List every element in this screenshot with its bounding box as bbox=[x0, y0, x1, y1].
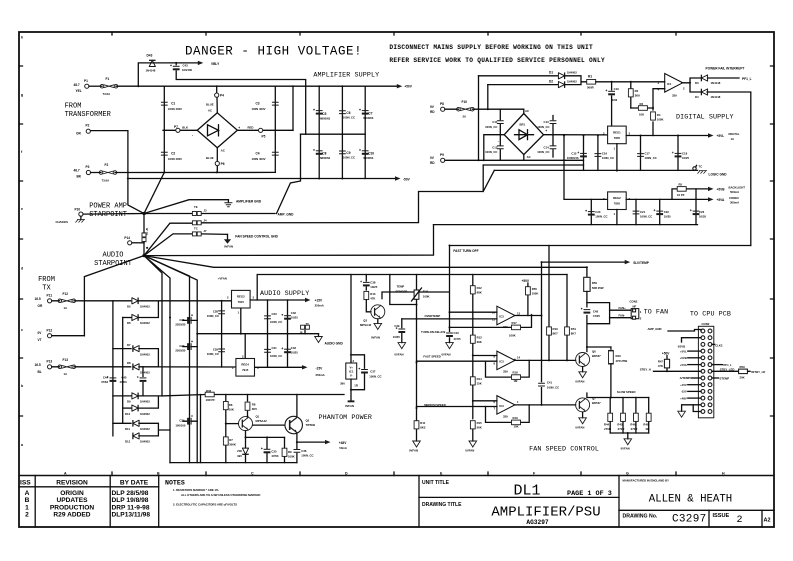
svg-text:0VFAN: 0VFAN bbox=[575, 379, 584, 383]
wire bridge out to REG1 bbox=[544, 134, 608, 136]
bridge rectifier BR diamond bbox=[197, 113, 237, 148]
svg-text:MANUFACTURED IN ENGLAND BY: MANUFACTURED IN ENGLAND BY bbox=[623, 479, 670, 483]
op-amp IC3a bbox=[497, 306, 515, 325]
capacitor C48 bbox=[581, 308, 591, 314]
svg-text:AG3297: AG3297 bbox=[526, 519, 549, 526]
svg-text:AC: AC bbox=[525, 109, 529, 113]
svg-text:R59: R59 bbox=[740, 365, 746, 369]
svg-text:CON2: CON2 bbox=[702, 322, 710, 326]
svg-text:PF1_L: PF1_L bbox=[742, 77, 752, 81]
diode D4 bbox=[701, 89, 707, 96]
svg-text:R50: R50 bbox=[592, 281, 598, 285]
svg-text:R47: R47 bbox=[658, 359, 664, 363]
wire VBLY bbox=[138, 63, 200, 86]
svg-text:Q6: Q6 bbox=[592, 350, 596, 354]
wire D9 D10 join bbox=[139, 396, 162, 408]
svg-text:FAN SPEED CONTROL: FAN SPEED CONTROL bbox=[529, 445, 599, 453]
svg-text:SENSOR: SENSOR bbox=[396, 289, 408, 293]
svg-text:POWER AMP: POWER AMP bbox=[89, 203, 127, 211]
svg-text:OR: OR bbox=[76, 132, 81, 136]
transistor Q7 bbox=[576, 398, 590, 412]
svg-text:100K: 100K bbox=[288, 454, 295, 458]
svg-text:P9: P9 bbox=[440, 153, 444, 157]
svg-text:D3: D3 bbox=[695, 81, 699, 85]
net PF1_L right bbox=[712, 364, 723, 366]
svg-text:T3.6A: T3.6A bbox=[103, 92, 111, 96]
svg-text:100N_CC: 100N_CC bbox=[343, 155, 355, 159]
capacitor C11 bbox=[499, 109, 501, 135]
resistor R7 bbox=[223, 437, 228, 445]
svg-text:48.7: 48.7 bbox=[74, 169, 80, 173]
svg-text:IC3: IC3 bbox=[499, 359, 504, 363]
wire REG2 out +5VA bbox=[626, 198, 710, 200]
svg-text:-: - bbox=[498, 139, 499, 143]
svg-text:100N_CC: 100N_CC bbox=[485, 150, 497, 154]
bridge internal diode bbox=[208, 125, 219, 136]
svg-text:C2: C2 bbox=[171, 152, 175, 156]
svg-text:R18: R18 bbox=[513, 371, 519, 375]
capacitor C33 bbox=[287, 334, 289, 368]
svg-text:1A: 1A bbox=[64, 372, 68, 376]
svg-text:Q2: Q2 bbox=[306, 419, 310, 423]
capacitor C12 bbox=[499, 135, 501, 161]
connector P1 bbox=[85, 84, 89, 88]
svg-text:16.5: 16.5 bbox=[35, 363, 41, 367]
svg-text:100/100: 100/100 bbox=[175, 423, 186, 427]
svg-text:100N_CC: 100N_CC bbox=[207, 314, 219, 318]
capacitor C38 bbox=[365, 275, 367, 291]
wire IC3a out bbox=[515, 315, 542, 317]
wire fast turn off vertical bbox=[382, 246, 450, 332]
svg-text:11: 11 bbox=[492, 318, 495, 322]
svg-text:7805: 7805 bbox=[614, 136, 621, 140]
svg-text:AC: AC bbox=[527, 155, 531, 159]
capacitor C36 bbox=[296, 442, 298, 463]
right border ticks bbox=[771, 66, 775, 416]
svg-text:1N4002: 1N4002 bbox=[140, 371, 150, 375]
wire -50V rail bbox=[128, 178, 398, 180]
connector P11 bbox=[48, 299, 52, 303]
svg-text:1N4148: 1N4148 bbox=[146, 69, 156, 73]
svg-text:100N_CC: 100N_CC bbox=[547, 385, 559, 389]
connector P4 bbox=[216, 86, 219, 113]
diode D9 bbox=[113, 395, 131, 397]
svg-text:AC: AC bbox=[208, 108, 212, 112]
wire 0V down to amp gnd bbox=[277, 134, 301, 213]
capacitor C28 bbox=[221, 301, 223, 367]
svg-text:1N4002: 1N4002 bbox=[567, 71, 577, 75]
net STEMP bbox=[712, 377, 719, 379]
svg-text:ALLEN & HEATH: ALLEN & HEATH bbox=[649, 494, 732, 506]
svg-text:1N4002: 1N4002 bbox=[140, 412, 150, 416]
svg-text:C26: C26 bbox=[179, 318, 185, 322]
diode D12 bbox=[133, 433, 139, 440]
capacitor C43 bbox=[176, 63, 306, 134]
wire D2 feed vertical bbox=[487, 85, 489, 110]
svg-text:C27: C27 bbox=[179, 344, 185, 348]
svg-text:OVERTEMP: OVERTEMP bbox=[425, 314, 441, 318]
svg-text:VT: VT bbox=[38, 338, 42, 342]
connector P9 bbox=[441, 158, 445, 162]
capacitor C29 bbox=[218, 349, 225, 352]
capacitor C5 bbox=[313, 109, 323, 115]
svg-text:R4: R4 bbox=[657, 113, 661, 117]
svg-text:FAN-: FAN- bbox=[619, 314, 626, 318]
svg-text:100N_CC: 100N_CC bbox=[270, 320, 282, 324]
svg-text:100N 400V: 100N 400V bbox=[252, 107, 266, 111]
capacitor C4 bbox=[272, 152, 279, 155]
wire D11 D12 join bbox=[139, 423, 170, 436]
capacitor C21 bbox=[635, 199, 637, 224]
svg-text:P2: P2 bbox=[86, 124, 90, 128]
svg-text:R19: R19 bbox=[513, 416, 519, 420]
svg-text:7915: 7915 bbox=[242, 368, 249, 372]
svg-text:R29 ADDED: R29 ADDED bbox=[53, 512, 90, 519]
svg-text:0VFAN: 0VFAN bbox=[465, 449, 474, 453]
svg-text:e: e bbox=[21, 207, 23, 211]
op-amp IC3b bbox=[497, 351, 515, 370]
svg-text:FAN+: FAN+ bbox=[619, 306, 627, 310]
svg-text:DL1: DL1 bbox=[513, 483, 540, 500]
svg-text:R9: R9 bbox=[288, 450, 292, 454]
svg-text:C7: C7 bbox=[368, 111, 372, 115]
capacitor bank vertical 1 bbox=[318, 86, 320, 178]
svg-text:J3: J3 bbox=[204, 209, 208, 213]
wire 0V mid rail bbox=[301, 133, 366, 135]
svg-text:47K: 47K bbox=[658, 364, 663, 368]
svg-text:2200/35: 2200/35 bbox=[175, 349, 186, 353]
svg-text:+5VA: +5VA bbox=[717, 198, 726, 202]
svg-text:C39: C39 bbox=[394, 324, 400, 328]
ground slow network bbox=[624, 439, 632, 445]
wire power to audio starpoint bbox=[143, 214, 145, 256]
svg-text:D9: D9 bbox=[127, 400, 131, 404]
wire pin row 13 hook bbox=[693, 405, 701, 412]
wire bridge box right vertical bbox=[274, 86, 276, 172]
svg-text:BD537: BD537 bbox=[592, 401, 601, 405]
svg-text:h: h bbox=[21, 36, 23, 40]
ground Q6 emitter bbox=[582, 367, 584, 372]
svg-text:P14: P14 bbox=[124, 236, 130, 240]
svg-text:339: 339 bbox=[672, 93, 677, 97]
svg-text:47/25: 47/25 bbox=[454, 337, 461, 341]
svg-text:1R: 1R bbox=[354, 384, 358, 388]
svg-text:2: 2 bbox=[737, 515, 743, 526]
svg-text:Q3: Q3 bbox=[363, 318, 367, 322]
svg-text:C4: C4 bbox=[256, 152, 260, 156]
svg-text:+15V: +15V bbox=[680, 383, 687, 387]
svg-text:C9: C9 bbox=[346, 151, 350, 155]
svg-text:R46: R46 bbox=[630, 423, 636, 427]
capacitor C17 bbox=[640, 136, 642, 171]
svg-text:FAST SPEED: FAST SPEED bbox=[423, 355, 440, 359]
connector P8 bbox=[441, 107, 445, 111]
svg-text:R44: R44 bbox=[604, 423, 610, 427]
svg-text:10/25: 10/25 bbox=[291, 351, 298, 355]
resistor R46 bbox=[635, 398, 637, 434]
svg-text:100N_CC: 100N_CC bbox=[537, 150, 549, 154]
capacitor C31 bbox=[267, 334, 269, 368]
wire +50V rail bbox=[116, 85, 399, 87]
svg-text:47/63: 47/63 bbox=[120, 380, 127, 384]
resistor R6 bbox=[225, 395, 227, 463]
wire bridge AC top bbox=[500, 109, 524, 113]
svg-text:YEL: YEL bbox=[76, 89, 82, 93]
svg-text:+48V: +48V bbox=[339, 441, 347, 445]
jumper J7 bbox=[144, 234, 228, 256]
fuse F2 bbox=[99, 171, 117, 175]
svg-text:D12: D12 bbox=[125, 440, 131, 444]
svg-text:100N_CC: 100N_CC bbox=[270, 354, 282, 358]
bridge BR1 diamond bbox=[504, 114, 543, 155]
svg-text:REFER SERVICE WORK TO QUALIFIE: REFER SERVICE WORK TO QUALIFIED SERVICE … bbox=[389, 57, 605, 64]
svg-text:J6: J6 bbox=[299, 331, 303, 335]
capacitor C26 bbox=[183, 319, 197, 321]
svg-text:8K7: 8K7 bbox=[571, 332, 577, 336]
svg-text:P3: P3 bbox=[86, 165, 90, 169]
svg-text:STEMP: STEMP bbox=[720, 377, 730, 381]
svg-text:DRAWING TITLE: DRAWING TITLE bbox=[422, 502, 462, 508]
fuse F13 bbox=[58, 365, 76, 369]
svg-text:10/25: 10/25 bbox=[370, 285, 377, 289]
svg-text:STBY_H: STBY_H bbox=[640, 367, 651, 371]
svg-text:BLUE: BLUE bbox=[206, 103, 214, 107]
svg-text:P12: P12 bbox=[47, 328, 53, 332]
svg-text:D4: D4 bbox=[695, 95, 699, 99]
wire P1 to F1 bbox=[89, 85, 102, 87]
svg-text:Z30: Z30 bbox=[237, 449, 242, 453]
svg-text:47/25: 47/25 bbox=[593, 314, 600, 318]
revision table verticals bbox=[35, 476, 159, 528]
svg-text:POWER FAIL INTERRUPT: POWER FAIL INTERRUPT bbox=[706, 67, 745, 71]
svg-text:16.5: 16.5 bbox=[35, 297, 41, 301]
svg-text:390: 390 bbox=[340, 382, 345, 386]
wire REG4 out -15V bbox=[255, 366, 303, 368]
arrow -50V bbox=[395, 176, 401, 180]
capacitor C18 bbox=[677, 136, 679, 171]
svg-text:10K: 10K bbox=[514, 425, 519, 429]
svg-text:1N4148: 1N4148 bbox=[711, 95, 721, 99]
wire Q1 base bbox=[226, 423, 239, 425]
svg-text:-: - bbox=[192, 133, 193, 137]
svg-text:RED: RED bbox=[248, 125, 254, 129]
svg-text:REG1: REG1 bbox=[613, 130, 621, 134]
wire P14 to starpoint bbox=[132, 242, 144, 244]
diode D3 bbox=[701, 75, 707, 82]
wire pin10 row bbox=[450, 311, 497, 313]
svg-text:BLUE: BLUE bbox=[206, 156, 214, 160]
connector P7 bbox=[163, 129, 197, 131]
wire medium speed row bbox=[417, 406, 497, 408]
diode D1 bbox=[479, 75, 559, 77]
wire slow network bottom bbox=[610, 433, 649, 439]
svg-text:C34: C34 bbox=[179, 419, 185, 423]
svg-text:AC: AC bbox=[221, 148, 225, 152]
svg-text:IC3: IC3 bbox=[499, 404, 504, 408]
svg-text:6800/63: 6800/63 bbox=[363, 156, 374, 160]
resistor R48 bbox=[648, 398, 650, 434]
wire slv/temp run bbox=[543, 261, 627, 263]
wire R1 to IC1 bbox=[596, 81, 665, 83]
node audio starpoint bbox=[146, 247, 148, 249]
connector P6 bbox=[216, 148, 218, 173]
svg-text:C41: C41 bbox=[547, 381, 553, 385]
svg-text:C30: C30 bbox=[272, 312, 278, 316]
svg-text:1A: 1A bbox=[731, 137, 735, 141]
svg-text:LOGIC GND: LOGIC GND bbox=[709, 172, 728, 176]
svg-text:SLV/TEMP: SLV/TEMP bbox=[633, 261, 650, 265]
svg-text:100K: 100K bbox=[509, 333, 516, 337]
svg-text:6800/63: 6800/63 bbox=[320, 156, 331, 160]
capacitor C16 bbox=[597, 136, 599, 171]
connector P12 bbox=[48, 334, 52, 338]
svg-text:C21: C21 bbox=[640, 210, 646, 214]
svg-text:339: 339 bbox=[503, 414, 508, 418]
svg-text:1N4002: 1N4002 bbox=[140, 321, 150, 325]
wire 0VFAN rail to R50 bbox=[586, 267, 588, 277]
svg-text:TO CPU PCB: TO CPU PCB bbox=[690, 310, 731, 318]
diode D6 bbox=[123, 317, 131, 319]
resistor R13 bbox=[472, 343, 474, 377]
capacitor C35 bbox=[266, 437, 268, 462]
connector CON2 pins bbox=[701, 329, 712, 413]
capacitor C34 bbox=[183, 420, 197, 422]
svg-text:Q1: Q1 bbox=[256, 414, 260, 418]
svg-text:DIGITAL: DIGITAL bbox=[729, 132, 740, 136]
svg-text:F10: F10 bbox=[462, 100, 468, 104]
capacitor C39 bbox=[401, 319, 403, 343]
svg-text:DIGITAL SUPPLY: DIGITAL SUPPLY bbox=[676, 114, 734, 122]
svg-text:10R PF: 10R PF bbox=[206, 398, 216, 402]
wire P10 to starpoint bbox=[83, 213, 144, 216]
svg-text:C33: C33 bbox=[291, 346, 297, 350]
wire audio starpoint long run to fast-turn-off bbox=[144, 225, 434, 256]
svg-text:T3.6A: T3.6A bbox=[102, 178, 110, 182]
capacitor C41 bbox=[538, 383, 545, 386]
wire D3 to PF1_L bbox=[708, 77, 740, 79]
svg-text:VBLY: VBLY bbox=[211, 62, 220, 66]
svg-text:NOTES: NOTES bbox=[165, 480, 185, 487]
wire fan- to connector bbox=[610, 317, 632, 319]
svg-text:TC: TC bbox=[306, 322, 310, 326]
svg-text:SLOW SPEED: SLOW SPEED bbox=[617, 390, 636, 394]
svg-text:3STBY_LD: 3STBY_LD bbox=[751, 370, 765, 374]
svg-text:C10: C10 bbox=[368, 151, 374, 155]
wire D1 D2 join bbox=[566, 76, 588, 85]
svg-text:13: 13 bbox=[517, 311, 521, 315]
transistor Q1 bbox=[239, 417, 253, 431]
capacitor C7 bbox=[359, 109, 369, 115]
unit/drawing divider bbox=[419, 496, 619, 498]
ground AUDIO GND bbox=[318, 334, 320, 337]
svg-text:10 PF: 10 PF bbox=[677, 193, 685, 197]
resistor R11 bbox=[416, 428, 418, 441]
capacitor C8 bbox=[313, 149, 323, 155]
svg-text:100/100: 100/100 bbox=[182, 68, 193, 72]
svg-text:R14: R14 bbox=[477, 377, 483, 381]
svg-text:47K: 47K bbox=[370, 297, 375, 301]
regulator REG4 bbox=[236, 359, 255, 377]
svg-text:+5VL: +5VL bbox=[717, 134, 725, 138]
svg-text:R36: R36 bbox=[206, 389, 212, 393]
wire temp bus elbow bbox=[390, 275, 417, 305]
zener Z30 bbox=[245, 431, 247, 463]
wire Q2 base row bbox=[253, 424, 285, 426]
svg-text:R6: R6 bbox=[229, 403, 233, 407]
svg-text:REG3: REG3 bbox=[237, 295, 245, 299]
wire REG3 gnd stub bbox=[241, 309, 245, 359]
svg-text:NF: NF bbox=[646, 427, 650, 431]
svg-text:C23: C23 bbox=[699, 210, 705, 214]
wire P11 row bbox=[52, 300, 131, 302]
svg-text:MPSA42: MPSA42 bbox=[360, 323, 372, 327]
svg-text:FAST TURN OFF: FAST TURN OFF bbox=[453, 249, 478, 253]
capacitor C44 bbox=[107, 376, 117, 382]
svg-text:REG4: REG4 bbox=[241, 363, 249, 367]
svg-text:100N_CC: 100N_CC bbox=[343, 115, 355, 119]
resistor R13a bbox=[364, 291, 369, 299]
resistor R36 bbox=[162, 395, 344, 396]
svg-text:100K: 100K bbox=[532, 292, 539, 296]
transistor Q3 bbox=[366, 300, 371, 312]
svg-text:TRANSFORMER: TRANSFORMER bbox=[65, 111, 112, 119]
svg-text:1: 1 bbox=[25, 504, 29, 511]
resistor R14 bbox=[472, 385, 474, 419]
svg-text:AMP_GND: AMP_GND bbox=[278, 212, 295, 216]
wire IC1 out to diodes bbox=[682, 78, 701, 92]
resistor R59 bbox=[712, 370, 750, 372]
svg-text:IC3: IC3 bbox=[499, 315, 504, 319]
capacitor C3 bbox=[272, 102, 279, 105]
wire main to REG2 bbox=[564, 136, 608, 200]
capacitor C1 bbox=[161, 102, 168, 105]
svg-text:RD: RD bbox=[430, 161, 435, 165]
wire lower gnd rail bbox=[434, 224, 698, 226]
svg-text:100N_CC: 100N_CC bbox=[640, 214, 652, 218]
wire digital gnd rail bbox=[494, 169, 697, 171]
svg-text:R17: R17 bbox=[512, 321, 518, 325]
svg-text:CHASSIS: CHASSIS bbox=[56, 220, 69, 224]
resistor R19 bbox=[486, 405, 530, 423]
svg-text:C1: C1 bbox=[171, 102, 175, 106]
svg-text:+48V: +48V bbox=[680, 396, 687, 400]
ground cpu bbox=[682, 405, 701, 411]
resistor R3 bbox=[631, 107, 653, 109]
svg-text:2A: 2A bbox=[463, 115, 467, 119]
svg-text:BD537: BD537 bbox=[592, 354, 601, 358]
svg-text:10000/16: 10000/16 bbox=[567, 156, 579, 160]
svg-text:15K: 15K bbox=[477, 382, 482, 386]
svg-text:DANGER - HIGH VOLTAGE!: DANGER - HIGH VOLTAGE! bbox=[185, 45, 362, 59]
svg-text:1M: 1M bbox=[514, 379, 519, 383]
wire starpoint to amplifier gnd bbox=[144, 200, 228, 214]
svg-text:20K: 20K bbox=[740, 375, 745, 379]
capacitor C40 bbox=[449, 338, 451, 343]
wire D7 D8 join bbox=[139, 349, 236, 367]
svg-text:R56: R56 bbox=[532, 287, 538, 291]
svg-text:R2: R2 bbox=[635, 89, 639, 93]
svg-text:STARPOINT: STARPOINT bbox=[89, 211, 127, 219]
svg-text:100N_CC: 100N_CC bbox=[301, 454, 313, 458]
svg-text:0VFAN: 0VFAN bbox=[345, 404, 354, 408]
svg-text:1N4002: 1N4002 bbox=[140, 427, 150, 431]
resistor R50 bbox=[584, 277, 590, 291]
transistor Q2 bbox=[285, 416, 303, 434]
svg-text:R8: R8 bbox=[252, 402, 256, 406]
svg-text:+5VL: +5VL bbox=[680, 349, 687, 353]
svg-text:100N_CC: 100N_CC bbox=[485, 125, 497, 129]
chassis mark LOGIC GND bbox=[698, 171, 708, 174]
